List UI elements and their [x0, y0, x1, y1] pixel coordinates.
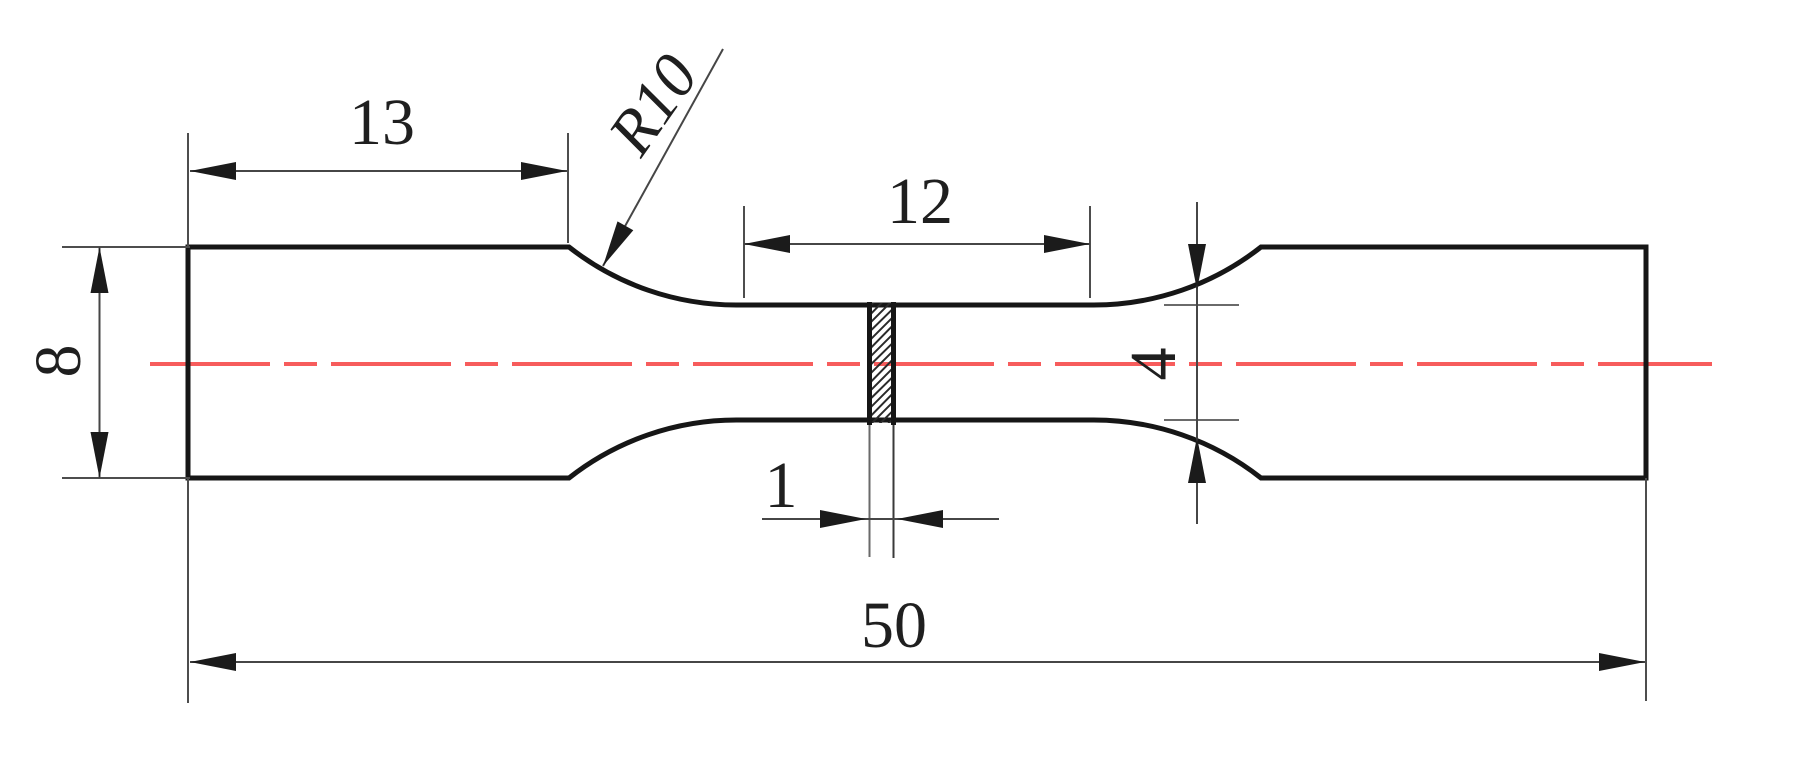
svg-text:13: 13: [349, 86, 415, 159]
extension line: left edge below specimen (for 50): [187, 478, 189, 703]
dimension line 4: [1196, 202, 1198, 524]
extension tick: gauge bottom (for 4): [1164, 419, 1239, 421]
arrow 12 right: [1044, 235, 1090, 253]
arrow 13 right: [521, 162, 567, 180]
extension line: top of 8: [62, 246, 190, 248]
extension line: left end of 12: [743, 206, 745, 298]
hatched gauge strip left border: [867, 302, 872, 425]
arrow 4 top: [1188, 244, 1206, 290]
extension line: strip left below (for 1): [869, 425, 871, 557]
leader arrow R10: [603, 221, 633, 266]
arrow 13 left: [190, 162, 236, 180]
extension line: right edge below specimen (for 50): [1645, 478, 1647, 701]
hatching of strip: [855, 266, 910, 457]
arrow 1 right (points left): [897, 510, 943, 528]
hatched gauge strip right border: [891, 302, 896, 425]
svg-text:1: 1: [765, 449, 798, 522]
arrow 4 bottom: [1188, 437, 1206, 483]
dimension line 8: [99, 247, 101, 478]
svg-text:12: 12: [887, 165, 953, 238]
svg-text:4: 4: [1117, 348, 1190, 381]
extension line: left edge above specimen (for 13): [187, 133, 189, 247]
arrow 8 top: [91, 247, 109, 293]
dimension line 1: [762, 518, 999, 520]
centerline (red dashed axis): [150, 362, 1712, 366]
dimension line 12: [744, 243, 1090, 245]
specimen outline (dog-bone tensile specimen): [188, 247, 1646, 478]
svg-text:50: 50: [861, 589, 927, 662]
arrow 8 bottom: [91, 432, 109, 478]
arrow 50 right: [1599, 653, 1645, 671]
leader line R10: [603, 49, 723, 266]
arrow 12 left: [744, 235, 790, 253]
dimension line 50: [190, 661, 1645, 663]
extension tick: gauge top (for 4): [1164, 304, 1239, 306]
extension line: bottom of 8: [62, 477, 190, 479]
arrow 1 left (points right): [820, 510, 866, 528]
extension line: right end of 12: [1089, 206, 1091, 298]
arrow 50 left: [190, 653, 236, 671]
dimension line 13: [190, 170, 567, 172]
extension line: right end of 13: [567, 133, 569, 243]
svg-text:8: 8: [22, 345, 95, 378]
extension line: strip right below (for 1): [893, 425, 895, 558]
